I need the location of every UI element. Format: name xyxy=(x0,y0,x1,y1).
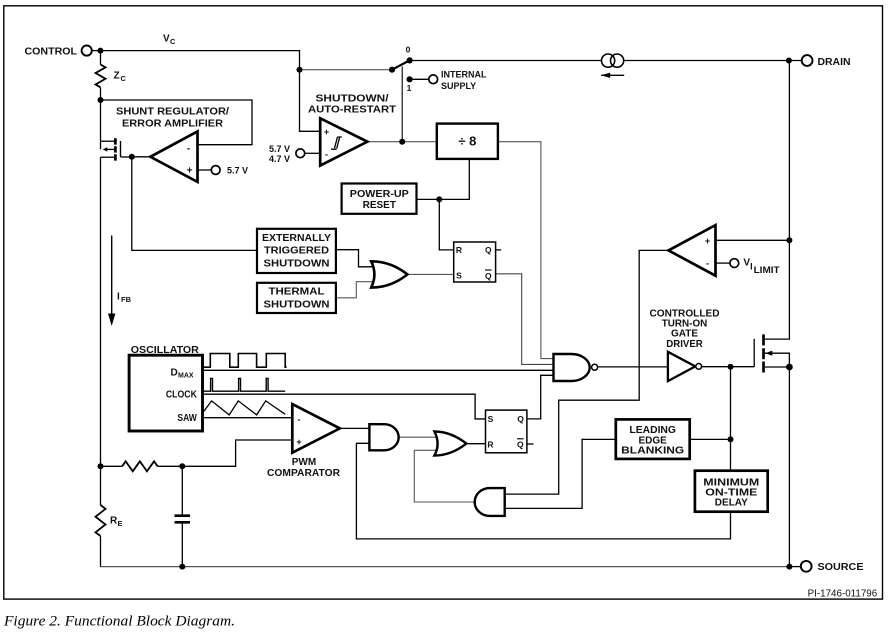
waveform DMAX square wave xyxy=(204,354,287,368)
wire source node to SOURCE terminal xyxy=(789,566,800,568)
switch contact 1 dot xyxy=(407,76,413,82)
svg-text:Q: Q xyxy=(517,414,524,424)
svg-text:COMPARATOR: COMPARATOR xyxy=(267,468,341,479)
node dot power-up reset xyxy=(436,196,442,202)
wire ETS output to OR1 input 1 xyxy=(336,250,374,267)
terminal DRAIN xyxy=(802,55,813,66)
wire left rail from CONTROL node down (with ZC and RE gaps) xyxy=(100,51,102,567)
wire error amp feedback loop box xyxy=(101,100,253,145)
wire latch2 Qbar stub xyxy=(527,443,534,445)
wire LEB output to vertical node xyxy=(690,438,731,440)
NAND gate G1 xyxy=(554,354,590,381)
node dot source rail right xyxy=(786,564,792,570)
wire feedback resistor left lead xyxy=(101,465,183,467)
wire MOSFET source tap to source node xyxy=(765,366,790,368)
svg-text:EXTERNALLY: EXTERNALLY xyxy=(262,233,331,244)
svg-text:÷ 8: ÷ 8 xyxy=(458,134,476,149)
svg-text:THERMAL: THERMAL xyxy=(269,287,325,298)
wire oscillator SAW line to PWM - input xyxy=(203,417,293,419)
IFB annotation arrow xyxy=(111,236,113,314)
wire AND2 input 2 to leading edge blanking xyxy=(505,439,616,508)
wire divide-by-8 output down to NAND input 1 xyxy=(498,142,554,359)
wire switch control from comparator output node xyxy=(401,67,403,142)
wire MOSFET drain tap horizontal (see drain vertical) xyxy=(765,353,790,367)
svg-text:-: - xyxy=(298,414,301,424)
box oscillator xyxy=(129,355,202,431)
wire thermal shutdown output to OR1 input 2 xyxy=(336,282,374,298)
wire power-up-reset node down to latch1 R input xyxy=(439,199,453,250)
current source circles xyxy=(602,54,615,67)
node dot MOSFET source xyxy=(786,364,793,371)
svg-text:PI-1746-011796: PI-1746-011796 xyxy=(808,588,878,599)
svg-text:5.7 V: 5.7 V xyxy=(227,166,248,176)
svg-text:D: D xyxy=(171,367,178,378)
waveform CLOCK pulses xyxy=(204,378,285,391)
waveform SAW triangle wave xyxy=(204,401,285,415)
svg-text:CLOCK: CLOCK xyxy=(166,390,198,401)
node dot ILIMIT + xyxy=(786,237,792,243)
wire MOSFET gate bar xyxy=(753,339,755,367)
wire VC from CONTROL to switch junction xyxy=(100,51,299,70)
wire 5.7/4.7V circle to comparator - input xyxy=(305,152,320,154)
node dot capacitor bottom rail xyxy=(179,564,185,570)
latch FF1 box xyxy=(454,242,496,282)
AND gate G3 (PWM AND) xyxy=(369,424,398,450)
svg-text:Q: Q xyxy=(485,271,492,281)
terminal INTERNAL SUPPLY xyxy=(429,75,438,84)
svg-text:LEADING: LEADING xyxy=(629,425,676,436)
svg-text:SHUTDOWN: SHUTDOWN xyxy=(264,259,330,270)
wire latch1 Q stub xyxy=(496,249,502,251)
svg-text:+: + xyxy=(705,236,710,246)
wire small MOSFET drain tap xyxy=(101,140,115,142)
current source arrow head xyxy=(601,73,610,78)
node dot LEB output xyxy=(728,436,734,442)
svg-text:I: I xyxy=(117,292,120,303)
wire drain vertical down to MOSFET drain tap xyxy=(765,61,790,340)
output MOSFET Q2 body arrow head xyxy=(765,351,772,356)
wire AND1 output to OR2 input 1 xyxy=(399,436,440,438)
svg-text:MAX: MAX xyxy=(178,373,194,380)
wire PWM output to AND1 input 1 xyxy=(340,427,370,429)
wire oscillator DMAX line to NAND input 3 xyxy=(203,369,554,371)
wire gate node down through LEB node to min delay box xyxy=(730,367,732,471)
svg-text:Z: Z xyxy=(114,71,120,82)
wire min-on-time delay output up to AND1 input 2 xyxy=(356,443,730,539)
svg-text:Q: Q xyxy=(517,440,524,450)
small MOSFET Q1 gate bar xyxy=(120,141,122,157)
svg-text:CONTROL: CONTROL xyxy=(25,47,78,58)
svg-text:1: 1 xyxy=(407,83,412,93)
svg-text:Figure 2. Functional Block Di: Figure 2. Functional Block Diagram. xyxy=(3,614,235,630)
box minimum on-time delay xyxy=(695,471,768,512)
terminal 5.7/4.7V at shutdown comparator xyxy=(296,149,305,158)
box divide-by-8 xyxy=(437,124,498,159)
wire latch2 Q up to NAND input 4 xyxy=(527,375,554,419)
wire node down and right to externally triggered shutdown xyxy=(132,157,257,251)
node dot VC switch junction xyxy=(297,67,303,73)
terminal 5.7V reference at error amp xyxy=(211,166,220,175)
svg-text:+: + xyxy=(187,166,193,177)
svg-text:PWM: PWM xyxy=(292,457,316,468)
node dot at CONTROL xyxy=(97,48,103,54)
svg-text:-: - xyxy=(187,144,190,155)
node dot feedback RC xyxy=(179,463,185,469)
wire OR2 output to latch2 R input xyxy=(466,443,485,445)
svg-text:TRIGGERED: TRIGGERED xyxy=(264,246,329,257)
wire ILIMIT - input to VILIMIT circle xyxy=(716,262,730,264)
svg-text:SUPPLY: SUPPLY xyxy=(441,81,476,91)
wire AND2 output to OR2 input 2 xyxy=(414,450,474,502)
box thermal shutdown xyxy=(257,283,336,313)
op-amp U2 shutdown/auto-restart comparator (points right) xyxy=(320,118,367,165)
svg-text:0: 0 xyxy=(406,45,411,55)
svg-text:S: S xyxy=(456,271,462,281)
svg-text:LIMIT: LIMIT xyxy=(754,265,780,276)
svg-text:Q: Q xyxy=(485,245,492,255)
wire current source to DRAIN xyxy=(624,60,802,62)
small MOSFET Q1 (shunt pass device) channel bars xyxy=(114,138,117,160)
svg-text:C: C xyxy=(121,74,127,83)
svg-text:BLANKING: BLANKING xyxy=(621,446,684,457)
wire capacitor leads xyxy=(181,466,183,566)
box power-up reset xyxy=(342,184,417,214)
svg-text:DRAIN: DRAIN xyxy=(818,57,851,68)
svg-text:SOURCE: SOURCE xyxy=(818,562,864,573)
node dot drain line top xyxy=(786,58,792,64)
svg-text:SHUTDOWN/: SHUTDOWN/ xyxy=(316,94,389,105)
node dot error amp output xyxy=(129,154,135,160)
resistor RE xyxy=(96,505,106,536)
node dot feedback rail left xyxy=(98,463,104,469)
svg-text:RESET: RESET xyxy=(363,200,396,211)
switch pivot dot xyxy=(389,67,395,73)
wire VC junction down to shutdown comparator + input xyxy=(300,70,321,132)
svg-text:SHUNT REGULATOR/: SHUNT REGULATOR/ xyxy=(116,107,229,118)
wire divide-by-8 bottom to power-up-reset node xyxy=(417,159,470,200)
wire oscillator CLOCK line to latch2 S input xyxy=(203,394,486,419)
wire ILIMIT output down to AND2 input 1 xyxy=(505,250,669,494)
svg-text:SAW: SAW xyxy=(177,413,197,424)
wire switch contact 1 to internal supply circle xyxy=(410,78,429,80)
wire node VC junction to switch pivot xyxy=(300,69,393,71)
switch contact 0 dot xyxy=(407,57,413,63)
svg-text:GATE: GATE xyxy=(671,329,698,340)
terminal CONTROL xyxy=(82,46,92,56)
wire comparator output to divide-by-8 xyxy=(367,141,436,143)
comparator U4 PWM (points right) xyxy=(292,404,340,453)
wire error amp + input to 5.7V circle xyxy=(198,169,212,171)
terminal VILIMIT xyxy=(730,259,739,268)
AND gate G5 (points left) xyxy=(475,488,505,516)
svg-text:DELAY: DELAY xyxy=(715,497,748,508)
wire switch contact 0 to current source xyxy=(410,60,602,62)
svg-text:V: V xyxy=(163,34,170,45)
resistor ZC xyxy=(96,65,106,88)
svg-text:POWER-UP: POWER-UP xyxy=(350,189,409,200)
svg-text:-: - xyxy=(325,149,328,159)
svg-text:ERROR AMPLIFIER: ERROR AMPLIFIER xyxy=(122,119,224,130)
output MOSFET Q2 channel bars xyxy=(762,334,765,372)
op-amp U1 shunt regulator/error amplifier (points left) xyxy=(150,131,197,182)
svg-text:FB: FB xyxy=(121,295,132,304)
wire source node down to bottom rail xyxy=(788,367,790,567)
svg-text:OSCILLATOR: OSCILLATOR xyxy=(131,345,200,356)
svg-text:SHUTDOWN: SHUTDOWN xyxy=(264,300,330,311)
OR gate G2 (shutdown OR) xyxy=(371,261,407,287)
svg-text:DRIVER: DRIVER xyxy=(666,339,703,350)
wire OR1 output to latch1 S input xyxy=(407,273,453,275)
svg-text:R: R xyxy=(456,245,462,255)
box externally triggered shutdown xyxy=(257,229,336,273)
wire gate driver output to MOSFET gate xyxy=(702,366,755,368)
box leading edge blanking xyxy=(616,419,690,459)
OR gate G4 (latch reset OR) xyxy=(434,432,466,456)
svg-text:I: I xyxy=(750,262,753,272)
svg-text:5.7 V: 5.7 V xyxy=(269,144,290,154)
wire bottom source rail xyxy=(101,566,790,568)
wire small MOSFET source tap xyxy=(101,156,115,158)
comparator U3 ILIMIT (points left) xyxy=(669,225,716,276)
wire feedback node to PWM + input xyxy=(182,440,292,466)
svg-text:+: + xyxy=(296,437,301,447)
wire small MOSFET body tap xyxy=(104,148,114,150)
node dot gate drive xyxy=(728,364,734,370)
node dot ZC bottom xyxy=(98,97,104,103)
hysteresis symbol inside U2 xyxy=(331,137,342,149)
svg-text:4.7 V: 4.7 V xyxy=(269,154,290,164)
resistor feedback horizontal xyxy=(122,461,158,471)
small MOSFET Q1 body arrow head xyxy=(103,147,108,151)
svg-text:AUTO-RESTART: AUTO-RESTART xyxy=(308,105,396,116)
capacitor feedback xyxy=(175,516,191,523)
WIRES-GROUP xyxy=(92,51,802,567)
wire small MOSFET gate to error amp node xyxy=(121,156,132,158)
svg-text:S: S xyxy=(488,414,494,424)
svg-text:INTERNAL: INTERNAL xyxy=(441,70,487,80)
wire latch1 Qbar down to NAND input 2 xyxy=(496,274,554,365)
buffer U5 gate driver (points right, inverting) xyxy=(668,352,695,381)
switch shutdown/auto-restart blade xyxy=(392,60,410,69)
svg-text:-: - xyxy=(706,259,709,269)
wire NAND output to gate driver input xyxy=(598,366,668,368)
latch FF2 box xyxy=(486,410,527,453)
wire CONTROL terminal to node xyxy=(92,50,101,52)
wire ILIMIT + input to drain line xyxy=(716,239,790,241)
wire error amp output to node xyxy=(132,156,151,158)
wire internal supply arrow under current source xyxy=(601,74,624,76)
svg-text:C: C xyxy=(170,37,176,46)
terminal SOURCE xyxy=(801,561,812,572)
svg-text:+: + xyxy=(324,127,329,137)
svg-text:R: R xyxy=(487,440,493,450)
node dot comparator output xyxy=(399,139,405,145)
svg-text:E: E xyxy=(118,519,123,528)
